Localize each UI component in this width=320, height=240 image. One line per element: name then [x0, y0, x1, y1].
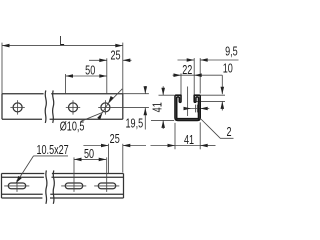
svg-text:Ø10,5: Ø10,5 — [60, 120, 85, 134]
svg-text:50: 50 — [85, 64, 95, 78]
svg-text:41: 41 — [184, 134, 194, 148]
svg-text:25: 25 — [110, 49, 120, 63]
svg-text:19,5: 19,5 — [125, 117, 143, 131]
svg-text:10: 10 — [223, 62, 233, 76]
svg-text:2: 2 — [226, 126, 231, 140]
svg-text:10.5x27: 10.5x27 — [36, 144, 68, 158]
svg-text:50: 50 — [84, 148, 94, 162]
svg-text:22: 22 — [182, 64, 192, 78]
svg-text:L: L — [59, 34, 64, 48]
svg-text:25: 25 — [110, 133, 120, 147]
svg-text:41: 41 — [151, 102, 165, 112]
svg-text:9,5: 9,5 — [225, 45, 238, 59]
